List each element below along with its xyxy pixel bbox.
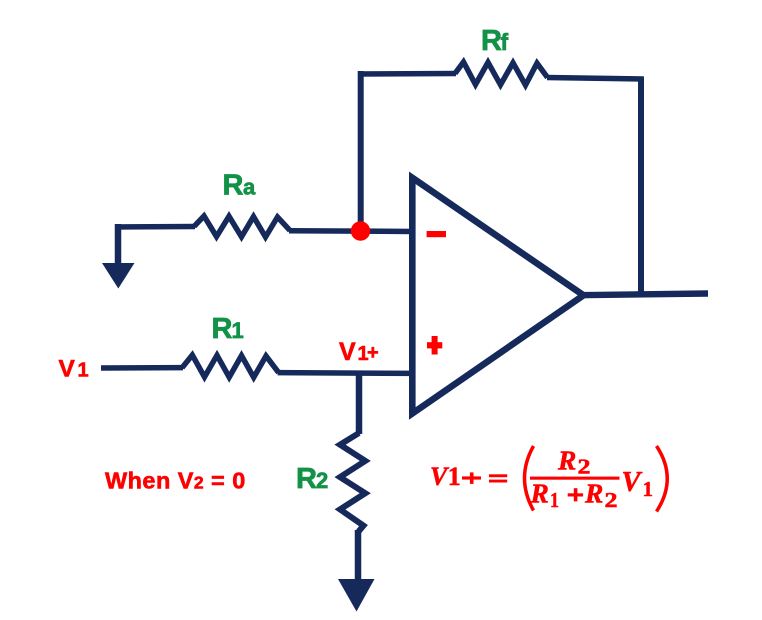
svg-text:When V2 = 0: When V2 = 0 — [105, 468, 246, 494]
svg-text:1: 1 — [550, 488, 559, 512]
svg-text:V: V — [622, 467, 643, 498]
svg-text:1: 1 — [78, 360, 89, 382]
svg-text:R: R — [212, 313, 233, 345]
svg-text:R: R — [296, 463, 317, 495]
svg-text:R: R — [223, 170, 244, 202]
svg-text:f: f — [501, 29, 509, 55]
svg-text:1: 1 — [643, 477, 654, 501]
svg-text:R: R — [530, 478, 549, 509]
svg-text:1: 1 — [448, 462, 461, 491]
svg-text:V: V — [339, 338, 356, 366]
svg-text:R: R — [481, 25, 502, 57]
svg-text:2: 2 — [316, 468, 328, 493]
svg-text:R: R — [584, 478, 603, 509]
svg-text:2: 2 — [578, 455, 591, 479]
svg-text:a: a — [243, 175, 256, 200]
svg-text:V: V — [59, 356, 76, 383]
svg-text:1: 1 — [232, 318, 244, 343]
svg-text:R: R — [557, 445, 576, 476]
svg-text:2: 2 — [605, 488, 618, 512]
svg-text:+: + — [367, 342, 379, 364]
